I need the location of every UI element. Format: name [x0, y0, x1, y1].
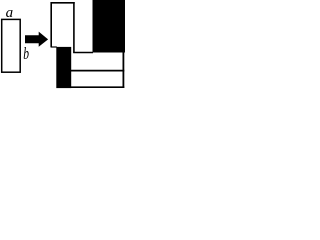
svg-text:b: b: [23, 45, 29, 64]
svg-text:a: a: [6, 5, 14, 21]
